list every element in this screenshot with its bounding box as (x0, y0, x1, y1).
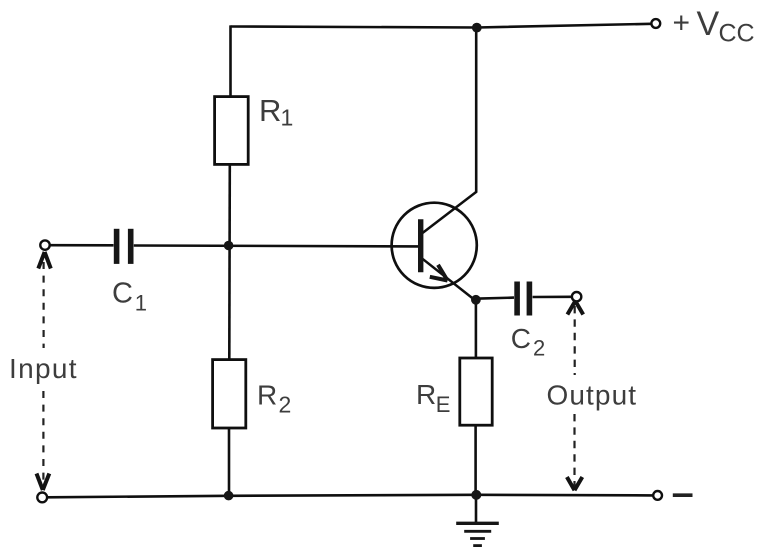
svg-text:+: + (673, 7, 691, 40)
svg-text:2: 2 (279, 392, 292, 418)
svg-text:C: C (112, 277, 133, 309)
svg-text:R: R (416, 379, 436, 410)
svg-text:E: E (436, 392, 451, 417)
svg-text:C: C (511, 323, 531, 354)
svg-text:1: 1 (281, 105, 294, 131)
svg-text:Output: Output (547, 380, 638, 411)
svg-text:V: V (697, 5, 720, 43)
svg-text:R: R (259, 93, 281, 128)
svg-text:CC: CC (719, 20, 755, 48)
svg-text:R: R (257, 379, 277, 410)
svg-text:2: 2 (533, 335, 545, 360)
svg-text:Input: Input (9, 353, 78, 384)
svg-text:1: 1 (135, 291, 147, 316)
